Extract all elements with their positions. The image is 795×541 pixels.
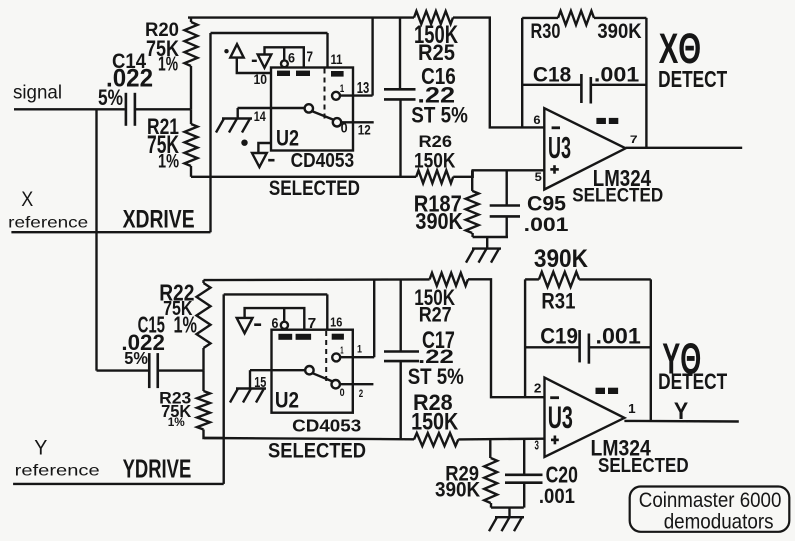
label pin 13 [357,80,370,97]
label title line 2 [664,509,774,533]
label C16 value .22 [417,82,455,107]
resistor R30 [522,11,646,25]
label C16 ref [421,63,456,89]
pin 6 circle (Y) [281,322,288,329]
label pin 3 noninverting [535,437,539,452]
svg-text:demoduators: demoduators [664,509,774,533]
symbol minus drive bottom [252,153,275,167]
wire pin12 stub [341,121,374,123]
label SELECTED (Y) [268,440,366,463]
label C14 tol 5% [98,85,123,110]
op-amp U2 switch box (X) [271,68,353,151]
svg-text:ST 5%: ST 5% [408,364,464,389]
svg-text:390K: 390K [534,245,588,273]
svg-text:150K: 150K [411,409,459,436]
svg-text:ST 5%: ST 5% [411,102,468,127]
label pin 16 [330,314,342,329]
label pin 10 [254,72,268,87]
wire U2Y bottom rail to R28 [204,438,414,439]
svg-text:R27: R27 [419,303,452,326]
svg-text:C18: C18 [533,63,571,86]
label U2 (Y) [275,388,299,413]
svg-text:1: 1 [340,83,345,95]
capacitor C16 [384,18,416,177]
label R23 value 75K [161,401,191,421]
label R23 tol 1% [168,415,185,429]
label CD4053 (Y) [292,416,361,436]
resistor R187 [466,170,479,237]
svg-text:SELECTED: SELECTED [572,186,663,207]
wire R26 to plus input [453,170,544,177]
wire pin1 stub [340,356,374,358]
minus sign U3 (X) [552,126,560,129]
resistor R26 [416,170,453,183]
svg-text:14: 14 [254,109,266,125]
wire pin6 stub (Y) [283,308,285,321]
dashed select line [324,69,326,120]
label pin 1 output [628,401,636,416]
minus sign U3 (Y) [550,396,559,399]
wire Y reference input [13,483,224,485]
label LM324 (Y) [591,436,652,461]
capacitor C14 [126,93,135,126]
switch throw circle pin2 [332,380,340,388]
label C18 ref [533,63,571,86]
label U2 (X) [276,125,299,150]
label pin 14 [254,109,266,125]
capacitor C95 [490,170,520,237]
switch throw circle pin1 [332,353,340,361]
label C16 tol ST 5% [411,102,468,127]
label C15 ref [138,312,166,338]
label R187 value 390K [415,208,463,234]
symbol select triangle up [224,44,243,57]
blob inner marks (Y) [278,334,311,340]
wire U2 bottom rail to R26 [191,176,416,178]
label R31 value 390K [534,245,588,273]
wire pin15 to pole [250,369,305,371]
label pin 12 [358,123,371,138]
svg-text:SELECTED: SELECTED [269,177,360,200]
capacitor C18 [522,74,646,104]
label pin 7 (Y) [308,315,317,332]
svg-text:6: 6 [533,113,540,127]
label R29 ref [445,462,479,486]
ground X input filter [466,237,501,263]
switch pole circle (Y) [305,366,313,374]
label C14 value .022 [106,65,153,93]
svg-text:150K: 150K [414,149,456,172]
wire pin8 elbow [258,143,271,153]
label title line 1 [639,488,782,512]
capacitor C19 [525,330,651,364]
svg-text:7: 7 [307,50,314,66]
label pin 1 [357,343,362,355]
svg-text:1: 1 [628,401,636,416]
svg-text:C19: C19 [540,324,578,349]
label C18 value .001 [594,63,640,86]
label R21 ref [147,114,179,139]
wire U2Y outer left edge / YDRIVE riser [222,294,224,484]
label Y [34,435,47,459]
label C20 ref [546,462,578,488]
svg-text:Y: Y [674,398,688,425]
label pin 6 (Y) [272,315,279,332]
wire R28 to plus input [458,438,544,441]
wire pin13 riser [371,18,373,96]
svg-text:6: 6 [272,315,279,332]
svg-text:1%: 1% [174,312,198,338]
label R22 value 75K [163,298,193,320]
svg-text:YDRIVE: YDRIVE [123,453,192,483]
svg-text:C95: C95 [527,192,566,215]
svg-text:R31: R31 [541,288,575,313]
svg-text:signal: signal [13,83,62,104]
switch throw circle pin12 [333,118,341,126]
pin 6 circle [281,60,288,67]
label throw 0 (Y) [340,387,345,399]
plus sign U3 (X) [550,165,559,174]
resistor R25 [414,11,453,24]
wire pin6 stub [283,47,285,60]
symbol minus drive (Y) [237,318,261,333]
label pin 2 [359,388,363,400]
label R26 ref [419,133,453,151]
label R20 value 75K [146,36,179,61]
blob CRL mark [331,71,344,77]
svg-text:CD4053: CD4053 [291,150,355,172]
wire C14 to R20/R21 junction [136,108,191,110]
dashed select line (Y) [325,331,327,381]
label R22 tol 1% [174,312,198,338]
blob inner marks [277,71,310,76]
wire signal input [14,108,125,110]
op-amp U3 (Y) [545,378,625,457]
capacitor C15 [149,353,158,388]
wire U2Y outer top edge [224,293,328,295]
label R21 tol 1% [158,151,179,173]
svg-text:SELECTED: SELECTED [268,440,366,463]
resistor R31 [525,272,651,287]
label C20 value .001 [539,484,575,508]
svg-text:10: 10 [254,72,268,87]
wire feedback right (Y) [650,279,652,421]
svg-text:U2: U2 [276,125,299,150]
label C14 ref [112,50,146,73]
svg-text:X: X [21,187,33,211]
svg-text:R30: R30 [531,20,561,43]
svg-text:5%: 5% [98,85,123,110]
label X reference [8,214,88,231]
svg-text:CD4053: CD4053 [292,416,361,436]
resistor R20 [185,18,198,110]
op-amp U3 (X) [544,108,625,189]
wire X output [626,147,743,149]
label CD4053 (X) [291,150,355,172]
label SELECTED U3 (X) [572,186,663,207]
svg-text:.001: .001 [539,484,575,508]
label throw 1 (Y) [340,345,344,356]
label throw 0 [341,120,348,135]
svg-text:Coinmaster 6000: Coinmaster 6000 [639,488,782,512]
switch arm (X) [312,111,333,119]
label R25 ref [418,40,455,65]
label pin 7 [307,50,314,66]
label LM324 (X) [593,165,651,191]
label R31 ref [541,288,575,313]
label Y output [674,398,688,425]
label R30 ref [531,20,561,43]
resistor R21 [185,109,198,177]
wire pin13 stub [340,94,373,96]
wire R27 to inverting drop (Y) [468,279,545,397]
svg-text:12: 12 [358,123,371,138]
wire C15 to R22/R23 junction [159,369,204,371]
label C19 ref [540,324,578,349]
label throw 1 [340,83,345,95]
svg-text:1%: 1% [158,151,179,173]
wire pin16 drop [326,294,328,329]
svg-text:U3: U3 [548,400,573,435]
label C17 ref [422,327,455,354]
svg-text:XDRIVE: XDRIVE [123,206,195,233]
resistor R28 [414,433,458,446]
label X theta [659,25,701,73]
wire pin14 to pole [238,107,305,109]
label DETECT (Y) [658,369,727,394]
wire pin2 stub [340,383,374,385]
wire R29/C20 bottom [491,506,524,508]
svg-text:13: 13 [357,80,370,97]
ground Y input filter [489,508,524,532]
label pin 11 [331,52,343,67]
svg-text:2: 2 [359,388,363,400]
resistor R27 [430,273,468,286]
wire pin11 drop [326,33,328,68]
label XDRIVE net [123,206,195,233]
svg-text:7: 7 [308,315,317,332]
switch throw circle pin13 [332,92,340,100]
label Y theta [662,335,701,384]
wire R25 to inverting drop [453,18,544,128]
svg-text:1%: 1% [168,415,185,429]
capacitor C17 [384,280,419,439]
svg-text:reference: reference [8,214,88,231]
label C17 value .22 [418,347,454,368]
wire branch to C15 [97,369,149,371]
svg-text:1%: 1% [158,54,178,76]
blob CRL mark (Y) [332,334,344,340]
svg-text:reference: reference [15,463,100,480]
label C15 tol 5% [124,348,148,368]
label U3 (X) [548,132,571,165]
svg-text:6: 6 [288,51,295,66]
svg-text:U3: U3 [548,132,571,165]
svg-text:SELECTED: SELECTED [598,455,689,477]
wire select to pin10 [237,58,271,73]
svg-text:R25: R25 [418,40,455,65]
svg-text:3: 3 [535,437,539,452]
svg-text:U2: U2 [275,388,299,413]
label C15 value .022 [121,330,164,355]
switch pole circle (X) [305,104,313,112]
node junction signal/branch [95,108,97,110]
ground U2 pin14 [216,108,252,133]
svg-text:11: 11 [331,52,343,67]
label R28 ref [413,390,453,415]
label R28 value 150K [411,409,459,436]
pin8 dot [241,140,247,146]
svg-text:DETECT: DETECT [658,369,727,394]
label R29 value 390K [435,477,481,501]
wire drive bracket to pin7 (Y) [245,308,305,330]
wire drive bracket to pin7 [265,47,304,67]
wire feedback left (Y) [524,279,526,397]
wire feedback right (X) [645,18,647,148]
label X [21,187,33,211]
title box [630,487,790,532]
label pin 6 inverting [533,113,540,127]
svg-text:1: 1 [357,343,362,355]
op-amp U2 switch box (Y) [272,330,353,413]
wire feedback left (X) [521,18,523,128]
label SELECTED (X) [269,177,360,200]
switch arm (Y) [313,373,333,381]
label R20 ref [145,19,179,41]
svg-text:390K: 390K [597,20,641,43]
label pin 7 output [630,134,638,146]
label R26 value 150K [414,149,456,172]
svg-text:390K: 390K [415,208,463,234]
label R25 value 150K [414,22,458,49]
label pin 2 inverting [534,381,542,396]
svg-text:1: 1 [340,345,344,356]
wire top rail [188,16,414,18]
label R23 ref [159,390,191,408]
ground U2 pin15 (Y) [230,370,266,402]
svg-text:.001: .001 [524,215,569,236]
label Y reference [15,463,100,480]
label pin 6 [288,51,295,66]
svg-text:7: 7 [630,134,638,146]
svg-text:16: 16 [330,314,342,329]
label SELECTED U3 (Y) [598,455,689,477]
label R30 value 390K [597,20,641,43]
svg-text:390K: 390K [435,477,481,501]
blob compensation marks (X) [596,118,618,124]
label pin 15 [254,374,266,391]
capacitor C20 [505,439,543,508]
svg-text:Y: Y [34,435,47,459]
label R22 ref [159,280,194,306]
label R187 ref [414,191,462,217]
svg-text:2: 2 [534,381,542,396]
label DETECT (X) [658,66,727,92]
resistor R29 [484,439,497,508]
label R21 value 75K [147,132,179,159]
svg-text:DETECT: DETECT [658,66,727,92]
resistor R23 [197,371,224,438]
wire Y output [624,420,738,423]
wire U2 outer left edge / XDRIVE riser [209,33,211,232]
label R27 ref [419,303,452,326]
label signal [13,83,62,104]
wire X reference input [11,231,210,233]
svg-text:.001: .001 [594,63,640,86]
wire bottom rail [204,278,430,281]
resistor R22 [197,280,211,371]
svg-text:0: 0 [340,387,345,399]
wire R187/C95 bottom [473,236,508,238]
svg-text:5: 5 [535,170,542,184]
label C19 value .001 [596,324,641,349]
label U3 (Y) [548,400,573,435]
wire signal branch down to Y channel [95,109,97,370]
label R27 value 150K [414,285,455,310]
wire pin1 riser [373,280,375,357]
label C17 tol ST 5% [408,364,464,389]
label R20 tol 1% [158,54,178,76]
svg-text:.001: .001 [596,324,641,349]
plus sign U3 (Y) [551,436,559,445]
symbol minus drive top [252,55,271,68]
label pin 5 noninverting [535,170,542,184]
label YDRIVE net [123,453,192,483]
label C95 value .001 [524,215,569,236]
label C95 ref [527,192,566,215]
wire U2 outer top edge [211,32,328,34]
svg-text:5%: 5% [124,348,148,368]
blob compensation marks (Y) [596,388,619,394]
